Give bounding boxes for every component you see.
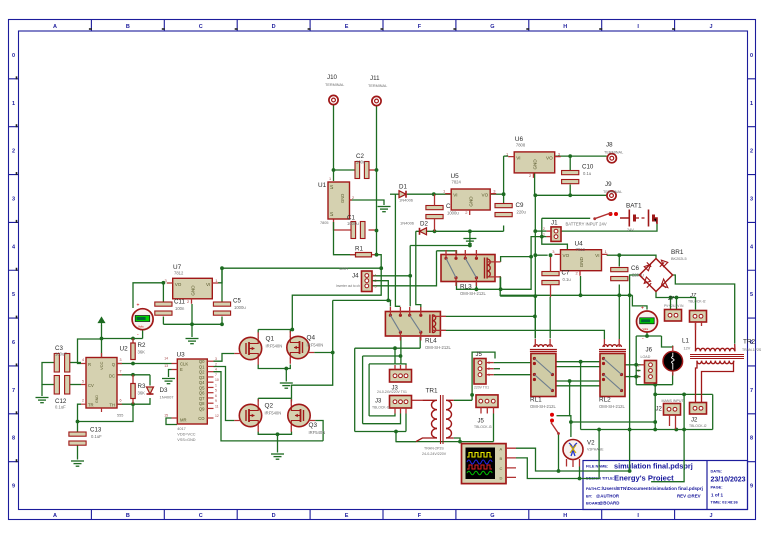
svg-text:Q4: Q4 — [307, 335, 316, 342]
svg-text:V3PHASE: V3PHASE — [587, 448, 604, 452]
svg-text:J10: J10 — [327, 74, 338, 81]
pins J5 TX2 — [486, 368, 494, 370]
connector J7 PV — [665, 310, 682, 322]
resistor R3 — [131, 383, 146, 399]
wire RL3 top loop — [437, 251, 457, 256]
svg-text:E: E — [345, 513, 349, 519]
pin U1 bottom to C1 — [334, 219, 352, 230]
svg-text:7: 7 — [120, 370, 122, 374]
svg-text:PV+ 24.5V IN: PV+ 24.5V IN — [664, 304, 684, 308]
label J3 TX — [377, 386, 407, 395]
svg-text:3: 3 — [750, 196, 753, 202]
svg-text:U2: U2 — [120, 346, 129, 353]
svg-text:C13: C13 — [90, 427, 102, 434]
svg-text:0: 0 — [750, 53, 753, 59]
svg-text:555: 555 — [117, 414, 123, 418]
svg-text:9: 9 — [215, 399, 217, 403]
svg-text:A: A — [500, 447, 503, 452]
ground at U1 — [378, 207, 391, 212]
pins J3 TX up3 — [405, 365, 407, 370]
wire RL1 coil left feed — [534, 296, 536, 338]
svg-text:Q3: Q3 — [199, 375, 205, 380]
capacitor C9 — [495, 202, 526, 217]
wire scope A wire — [516, 448, 630, 471]
wire TR1 right top to J5-2 — [454, 399, 472, 401]
wire D1 input from inverter — [390, 193, 400, 195]
svg-text:D1: D1 — [399, 184, 407, 191]
junction BR node — [617, 253, 621, 257]
wire RL3 bottom contacts loop — [457, 237, 542, 290]
wire V2 feed — [570, 381, 571, 437]
label J7 PV — [664, 296, 684, 308]
junction load loop — [628, 428, 632, 432]
wire D2 column to RL4 pin4 — [416, 231, 421, 311]
junction scope B loop — [597, 428, 601, 432]
wire J6 pin3 — [636, 376, 640, 378]
svg-text:36K: 36K — [138, 391, 146, 396]
ground at upper H bridge — [280, 383, 293, 388]
junction DC column C7rail — [533, 294, 537, 298]
pin C8 bottom — [434, 219, 436, 232]
svg-text:1000u: 1000u — [347, 221, 359, 226]
svg-text:J7: J7 — [667, 296, 675, 302]
svg-text:7824: 7824 — [452, 180, 462, 185]
wire loop inner — [369, 364, 406, 365]
svg-text:7: 7 — [750, 388, 753, 394]
wire C6 column — [618, 255, 620, 266]
pins J3 TX up2 — [400, 365, 402, 370]
svg-text:BATTERY INPUT 24V: BATTERY INPUT 24V — [566, 222, 607, 227]
relay RL1 — [530, 339, 557, 409]
svg-text:TR2: TR2 — [743, 339, 756, 346]
terminal J11 — [368, 75, 387, 106]
svg-text:Inverter out to ch: Inverter out to ch — [336, 284, 360, 288]
svg-text:1: 1 — [12, 101, 15, 107]
wire U5 ground drop — [469, 231, 471, 245]
wire R2 top rail — [102, 338, 143, 340]
svg-text:DATE:: DATE: — [711, 469, 723, 474]
junction J1 pin1 — [540, 235, 544, 239]
wire TR loop to R3 node — [78, 404, 134, 421]
svg-text:J9: J9 — [605, 181, 612, 188]
wire V2 right pin drop — [579, 467, 581, 479]
svg-text:2: 2 — [638, 369, 640, 373]
pins J5 TX3 — [486, 374, 494, 376]
wire lamp feed — [662, 336, 673, 347]
wire U4 VO to DC column — [535, 254, 547, 256]
title block path row — [586, 486, 703, 491]
wire J7 pin2 tap — [676, 298, 678, 310]
wire C10 bottom to J9 rail — [569, 185, 571, 196]
svg-text:1: 1 — [329, 177, 331, 181]
relay RL3 — [441, 250, 501, 296]
svg-text:OMI-SH-212L: OMI-SH-212L — [425, 345, 452, 350]
wire load line vertical — [629, 295, 631, 471]
junction U4 gnd — [579, 293, 583, 297]
wire R1 node down to J4 column — [292, 255, 381, 330]
svg-text:2: 2 — [82, 399, 84, 403]
svg-text:OMI-SH-212L: OMI-SH-212L — [460, 291, 487, 296]
terminal J10 — [325, 74, 344, 105]
svg-text:C11: C11 — [174, 299, 185, 306]
svg-text:1 of 1: 1 of 1 — [711, 493, 723, 498]
junction coil bottom net — [499, 287, 503, 291]
wire RL3 area to U5 ground — [410, 245, 470, 247]
junction J2 loop topleft — [653, 393, 657, 397]
svg-text:C: C — [500, 466, 503, 471]
svg-text:2: 2 — [12, 149, 15, 155]
wire RL3 coil top pin — [501, 257, 531, 262]
wire U3 Q2 return loop — [214, 372, 324, 441]
svg-text:6: 6 — [12, 340, 15, 346]
svg-text:220V TX1: 220V TX1 — [474, 386, 489, 390]
wire lamp bottom lead — [672, 373, 674, 385]
wire battery return to J1 — [552, 230, 604, 232]
junction RL3 bottom pin2 — [475, 287, 479, 291]
wire bridge bottom to J7 — [656, 292, 696, 310]
junction C7 top — [549, 253, 553, 257]
wire U5 output to C9 node — [490, 193, 503, 195]
svg-text:J: J — [710, 24, 713, 30]
connector J2 mains — [664, 404, 681, 416]
pins J2 mains down2 — [675, 415, 677, 429]
wire loop outer — [354, 348, 356, 431]
wire 555 Q to U3 CLK — [117, 363, 171, 365]
junction mains mid top — [682, 393, 686, 397]
pin C7 bottom — [550, 285, 552, 297]
wire rail1 RL4 to DC column — [441, 315, 535, 317]
wire J11 down to R1 node — [376, 106, 378, 255]
svg-text:D3: D3 — [160, 387, 168, 394]
svg-text:TERMINAL: TERMINAL — [604, 151, 623, 155]
wire J4 pin1 column down — [409, 246, 411, 307]
wire battery switch feed — [542, 217, 590, 219]
pins J3 TBLOCK down2 — [400, 408, 402, 414]
svg-text:1N4006: 1N4006 — [399, 198, 414, 203]
svg-text:0: 0 — [12, 53, 15, 59]
wire J7 pin1 tap — [670, 298, 672, 310]
svg-text:Q2: Q2 — [199, 370, 205, 375]
wire Q3 gate link — [315, 421, 323, 441]
junction J9 rail left — [533, 193, 537, 197]
wire C3 ground drop — [41, 385, 43, 397]
junction TH D3 — [131, 402, 135, 406]
wire lamp top lead — [672, 346, 674, 348]
svg-text:24-0-24V/220V TX1: 24-0-24V/220V TX1 — [377, 390, 407, 394]
wire VCC arrow column — [101, 325, 103, 357]
wire J5-1 pin3 to RL1 — [494, 362, 531, 364]
svg-text:+: + — [641, 306, 644, 312]
wire J3-2 pin1 loop — [369, 414, 395, 416]
pin C1 right plate to J11 wire — [369, 229, 377, 231]
title block date cell — [711, 469, 746, 505]
svg-text:120R: 120R — [339, 267, 348, 271]
label J6 — [638, 347, 653, 379]
wire J6 pin1 — [636, 364, 640, 366]
junction C2-J11 — [375, 168, 379, 172]
wire U6 pin1 from C9 node — [504, 155, 509, 157]
wire bridge left to load line — [630, 275, 640, 295]
svg-text:1000u: 1000u — [234, 305, 246, 310]
wire J4 pin2 drop — [372, 281, 388, 301]
wire J10 node to C2 — [334, 169, 356, 171]
svg-text:U3: U3 — [177, 352, 186, 359]
svg-text:1N4007: 1N4007 — [160, 395, 175, 400]
pins J3 TBLOCK down — [394, 408, 396, 414]
svg-text:220u: 220u — [517, 210, 527, 215]
wire U1 pin2 to ground — [350, 200, 385, 205]
motor V2 — [563, 440, 583, 468]
svg-text:TERMINAL: TERMINAL — [603, 190, 622, 194]
svg-text:E: E — [345, 24, 349, 30]
wire C12 right to 555 CV — [70, 384, 81, 386]
wire U4 VI to BR node — [607, 254, 620, 256]
bridge rectifier BR1 — [639, 259, 672, 292]
wire J5-1 pin1 to RL1 — [494, 374, 531, 376]
svg-text:Volts: Volts — [138, 325, 144, 329]
junction J6 bottom — [653, 383, 657, 387]
svg-text:GND: GND — [191, 285, 196, 296]
svg-text:3: 3 — [12, 196, 15, 202]
lamp L1 — [663, 346, 683, 376]
svg-text:VDD=VCC: VDD=VCC — [177, 433, 196, 437]
svg-text:8: 8 — [750, 436, 753, 442]
svg-text:C6: C6 — [631, 265, 639, 272]
svg-text:36K: 36K — [138, 350, 146, 355]
wire RL1-RL2 row2 — [556, 380, 600, 382]
capacitor C5 — [213, 298, 246, 316]
svg-text:J1: J1 — [551, 220, 558, 227]
svg-text:J4: J4 — [352, 273, 359, 280]
regulator U5 — [443, 173, 496, 215]
wire ground rail y231 — [416, 230, 504, 232]
wire U1 bottom to R1 — [334, 222, 356, 255]
wire bridge right to TR2 — [673, 275, 735, 344]
wire TR1 top left lead link — [412, 399, 423, 401]
svg-text:2: 2 — [375, 279, 377, 283]
svg-text:Q1: Q1 — [199, 364, 205, 369]
svg-text:14: 14 — [164, 357, 168, 361]
wire 555 TR to C13 — [78, 404, 82, 431]
junction C10 top — [568, 154, 572, 158]
wire TR1 bottom feed — [396, 432, 416, 442]
svg-text:REV @REV: REV @REV — [677, 494, 701, 499]
voltmeter V1 — [132, 303, 153, 338]
svg-text:TIME: 03:48:36: TIME: 03:48:36 — [711, 500, 739, 505]
svg-text:D2: D2 — [420, 221, 428, 228]
svg-text:0.1uF: 0.1uF — [55, 405, 66, 410]
diode D1 — [399, 184, 414, 203]
pin R1 right lead — [372, 254, 377, 256]
capacitor C7 — [542, 270, 571, 285]
svg-text:C5: C5 — [233, 298, 241, 305]
svg-text:D: D — [272, 24, 276, 30]
transistor Q3 — [288, 399, 325, 435]
svg-text:CLK: CLK — [180, 362, 188, 367]
svg-text:V2: V2 — [587, 440, 595, 447]
junction mains mid loop — [682, 428, 686, 432]
wire J2 loop top — [655, 393, 713, 395]
svg-text:IRF540N: IRF540N — [307, 343, 324, 348]
svg-text:RL3: RL3 — [460, 284, 472, 291]
wire J6 pin2 — [636, 370, 640, 372]
svg-text:J7: J7 — [689, 293, 697, 299]
wire J5-1 pin2 stub — [494, 368, 500, 370]
connector J5 TX — [474, 359, 486, 385]
wire Q4 gate link — [314, 352, 333, 354]
svg-text:RL1: RL1 — [530, 397, 542, 404]
wire RL4 pin1 drop — [389, 300, 391, 306]
svg-text:Q7: Q7 — [199, 396, 205, 401]
ground at U3 — [162, 379, 175, 384]
svg-text:VSS=GND: VSS=GND — [177, 438, 196, 442]
junction U5 out — [502, 192, 506, 196]
capacitor C12 — [54, 376, 70, 410]
label J2 mains — [656, 399, 685, 413]
connector J3 TX — [390, 370, 412, 383]
junction gnd rail load — [628, 293, 632, 297]
wire C10 column — [569, 156, 571, 171]
svg-text:5: 5 — [12, 292, 15, 298]
wire U3 Q0 to Q1 gate — [214, 354, 235, 362]
junction J7 pin2 — [675, 296, 679, 300]
wire Q2 Q3 source rail — [258, 432, 291, 435]
svg-text:PATH:: PATH: — [586, 486, 597, 491]
wire J4 pin3 long — [372, 251, 437, 286]
wire RL4 pin3 drop — [400, 337, 402, 364]
svg-text:C9: C9 — [516, 202, 524, 209]
svg-text:2: 2 — [215, 362, 217, 366]
wire C5 bottom lead — [221, 317, 223, 325]
resistor R2 — [131, 342, 146, 360]
svg-text:R2: R2 — [138, 342, 146, 349]
wire Q1 Q4 source rail — [258, 365, 290, 369]
svg-text:2: 2 — [352, 196, 354, 200]
svg-text:8: 8 — [12, 436, 15, 442]
wire RL4 pin4 drop — [419, 337, 421, 348]
svg-text:C10: C10 — [582, 164, 594, 171]
wire J2 loop right — [712, 394, 714, 429]
pins J6 — [641, 364, 645, 366]
pin C7 top — [550, 255, 552, 271]
svg-text:B: B — [126, 513, 130, 519]
svg-text:2200u: 2200u — [632, 273, 644, 278]
label J5 TBLOCK — [474, 419, 492, 430]
label J5 TX — [474, 352, 490, 390]
junction J4 pin2 node — [386, 299, 390, 303]
svg-text:C:\Users\ETN\Documents\simulat: C:\Users\ETN\Documents\simulation final.… — [597, 486, 703, 491]
svg-text:G: G — [490, 513, 494, 519]
wire HB lower ground drop — [277, 434, 279, 452]
svg-text:7812: 7812 — [174, 271, 184, 276]
svg-text:7808: 7808 — [516, 143, 526, 148]
svg-text:VI: VI — [206, 282, 210, 287]
wire H-bridge right rail — [292, 300, 333, 398]
svg-text:Q0: Q0 — [199, 359, 205, 364]
junction DC column rail1 — [533, 315, 537, 319]
wire bottom rail U7 — [163, 323, 222, 325]
wire U6 gnd drop — [534, 173, 536, 195]
junction J1 pin2 — [533, 229, 537, 233]
junction J6 pin1 — [634, 363, 638, 367]
svg-text:D: D — [500, 475, 503, 480]
svg-text:@AUTHOR: @AUTHOR — [596, 494, 620, 499]
junction gnd rail C6col — [617, 293, 621, 297]
svg-text:Q5: Q5 — [199, 385, 205, 390]
svg-text:4017: 4017 — [177, 427, 185, 431]
junction U5 ground node — [468, 244, 472, 248]
svg-text:IRF540N: IRF540N — [266, 344, 283, 349]
wire HB upper ground drop — [285, 369, 287, 382]
junction U5 gnd — [468, 229, 472, 233]
title block by row — [586, 494, 701, 499]
svg-text:C7: C7 — [562, 270, 570, 277]
svg-text:1: 1 — [638, 364, 640, 368]
junction J9 rail C10 — [568, 193, 572, 197]
junction TR1 feed — [394, 430, 398, 434]
wire 555 DC to D3 — [117, 374, 150, 376]
wire J3 pin1 drop — [394, 348, 396, 363]
pins J4 — [372, 275, 374, 277]
battery BAT1 — [620, 210, 657, 227]
svg-text:Q6: Q6 — [199, 391, 205, 396]
wire rail2 RL4 to RL2 coil — [441, 330, 605, 339]
wire mains mid drop — [651, 394, 684, 481]
svg-text:J3: J3 — [375, 399, 382, 405]
junction TR1 bottom right — [458, 440, 462, 444]
junction J10-C2 — [332, 168, 336, 172]
wire J5-2 up loop — [472, 352, 495, 400]
svg-text:6: 6 — [120, 399, 122, 403]
wire Q2 Q3 drain rail — [258, 397, 291, 399]
svg-text:5: 5 — [750, 292, 753, 298]
junction load at link — [653, 420, 657, 424]
svg-text:J: J — [710, 513, 713, 519]
title block file name row — [586, 462, 693, 471]
wire RL3 bottom pin2 drop — [475, 282, 477, 290]
junction U7 gnd rail — [190, 322, 194, 326]
connector J3 TBLOCK — [390, 396, 412, 409]
pin R3 bottom to TH — [132, 399, 134, 405]
junction VCC rail — [100, 337, 104, 341]
svg-text:simulation final.pdsprj: simulation final.pdsprj — [614, 462, 693, 471]
wire J3-2 pin2 loop — [363, 414, 401, 424]
wire 555 reset branch — [78, 339, 102, 364]
svg-text:100n: 100n — [175, 306, 185, 311]
wire C5 top lead — [221, 268, 223, 302]
wire U7 rail to R1 node — [222, 267, 381, 269]
regulator U7 — [164, 264, 218, 304]
svg-text:L1: L1 — [682, 338, 689, 345]
wire U4 gnd drop — [580, 276, 582, 295]
wire C7 bottom to RL1 coil right — [549, 297, 551, 339]
svg-text:11: 11 — [215, 404, 219, 408]
junction loop left bottom — [653, 428, 657, 432]
svg-text:CV: CV — [88, 383, 94, 388]
relay RL2 — [599, 339, 626, 409]
junction Q4 gate rail — [331, 351, 335, 355]
wire meter bottom to R2 rail — [142, 330, 144, 339]
label J3 TBLOCK — [372, 399, 390, 410]
grid tick marks — [17, 29, 676, 462]
label J2 TBLOCK — [689, 418, 707, 429]
wire J3-2 loop bottom outer — [355, 431, 406, 433]
svg-text:BY:: BY: — [586, 494, 592, 499]
ground at lower H bridge — [271, 454, 284, 459]
wire U7 pin1 riser — [218, 268, 222, 283]
svg-text:Q8: Q8 — [199, 401, 205, 406]
svg-text:7805: 7805 — [320, 221, 328, 225]
